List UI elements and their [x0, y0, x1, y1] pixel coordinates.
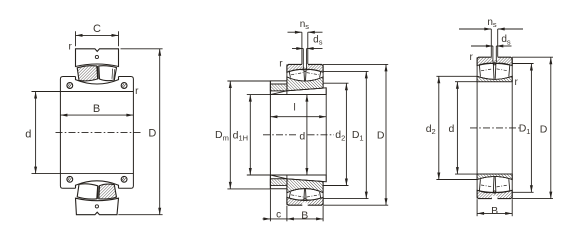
bearing right face line	[322, 64, 324, 88]
bottom left roller	[77, 184, 98, 199]
svg-text:l: l	[293, 103, 295, 114]
dimension B middle	[286, 206, 288, 222]
dimension d_s right-fig	[471, 45, 493, 47]
sleeve thread block bottom	[270, 179, 287, 186]
left figure centerline	[56, 131, 141, 133]
shaft top surface line	[247, 94, 326, 96]
dimension d_1H	[249, 95, 251, 175]
middle figure centerline	[263, 134, 298, 136]
hole circle bottom right-fig	[494, 191, 496, 193]
sleeve lip bottom outline	[270, 175, 287, 189]
dimension d_s top	[292, 48, 303, 50]
groove gap top right-fig	[492, 56, 498, 60]
groove notch bottom	[302, 202, 307, 206]
dimension d middle	[306, 95, 308, 175]
bottom roller separation line	[97, 186, 100, 199]
roller axes top (dash-dot)	[291, 73, 303, 75]
dimension C	[75, 31, 77, 46]
top outer ring section	[76, 49, 119, 67]
body face line top	[32, 91, 134, 93]
sectioned pin circle	[67, 83, 73, 89]
hole exit circle right-fig	[494, 63, 496, 65]
rollers top	[287, 77, 323, 81]
dimension D_1 right-fig	[512, 63, 533, 65]
bottom right roller (sectioned)	[99, 184, 117, 199]
sleeve thread block top	[270, 84, 287, 91]
roller edge lines top right-fig	[479, 65, 480, 77]
dimension D_1 middle	[323, 70, 368, 72]
bearing left face line	[286, 64, 288, 94]
svg-text:D: D	[377, 130, 385, 142]
svg-text:d: d	[299, 131, 305, 143]
lubrication groove gap top	[302, 64, 308, 68]
dimension n_s right-fig	[459, 28, 491, 30]
rollers bottom	[287, 189, 323, 193]
dimension D	[121, 48, 163, 50]
dimension B	[60, 114, 133, 116]
roller bottom arcs	[289, 198, 304, 200]
dimension n_s top	[288, 31, 302, 33]
roller bottom arcs right-fig	[479, 191, 493, 193]
dimension D_m	[227, 80, 270, 82]
groove width lines top	[301, 32, 303, 64]
rollers top right-fig	[477, 76, 512, 79]
sleeve lip top outline	[270, 81, 287, 95]
dimension D right-fig	[512, 56, 553, 58]
lubrication hole circle bottom	[304, 198, 306, 200]
top right roller	[99, 66, 117, 81]
dimension D middle	[323, 63, 388, 65]
roller top arcs	[289, 70, 304, 72]
lubrication hole lines top	[302, 49, 304, 70]
outer ring section top right-fig	[477, 57, 512, 65]
dimension d	[35, 92, 37, 174]
top roller separation line	[97, 66, 100, 79]
top right roller end-face lines	[111, 69, 114, 79]
rollers bottom right-fig	[477, 176, 512, 179]
bearing left face line right-fig	[476, 57, 478, 198]
lubrication hole exit circle top	[304, 69, 306, 71]
dimension d_2 right-fig	[436, 75, 477, 77]
inner ring section bottom right-fig	[477, 174, 512, 179]
hole lines right-fig	[492, 46, 494, 62]
sectioned pin circle	[121, 176, 127, 182]
inner ring section top right-fig	[477, 76, 512, 81]
bottom outer ring section	[76, 198, 119, 215]
roller top arcs right-fig	[479, 63, 493, 65]
svg-text:D: D	[540, 123, 548, 135]
sectioned pin circle	[121, 83, 127, 89]
dimension c	[269, 190, 271, 222]
shaft bottom surface line	[247, 174, 326, 176]
dimension d right-fig	[455, 81, 477, 83]
svg-text:d: d	[25, 128, 31, 140]
right figure centerline	[470, 127, 520, 129]
left figure body (inner ring assembly outside view)	[60, 77, 133, 189]
inner ring section top	[287, 77, 323, 91]
roller axes top right-fig	[481, 69, 493, 71]
roller edge lines top	[289, 72, 290, 78]
svg-text:C: C	[93, 23, 101, 35]
dimension B right-fig	[476, 199, 478, 216]
roller axes bottom right-fig	[481, 185, 493, 187]
svg-text:B: B	[301, 210, 308, 222]
inner ring section bottom	[287, 179, 323, 193]
roller edge lines bottom right-fig	[479, 179, 480, 191]
dimension l	[270, 116, 326, 118]
outer ring section bottom right-fig	[477, 190, 512, 198]
adapter sleeve outline bottom (viewed through slit)	[270, 175, 326, 182]
sectioned pin circle	[67, 176, 73, 182]
groove notch bottom right-fig	[492, 196, 498, 200]
outer ring section top	[287, 64, 323, 72]
roller axes bottom	[291, 195, 303, 197]
lubrication hole bottom	[95, 205, 98, 208]
top left roller (sectioned)	[77, 66, 98, 81]
adapter sleeve outline top (viewed through slit)	[270, 88, 326, 95]
sleeve/shaft end face line right	[325, 88, 327, 182]
outer ring section bottom	[287, 197, 323, 205]
body face line bottom	[32, 173, 134, 175]
svg-text:d: d	[448, 123, 454, 135]
sleeve lip left face line	[269, 81, 271, 189]
bearing right face line right-fig	[511, 57, 513, 198]
roller edge lines bottom	[289, 192, 290, 198]
dimension d_2 middle	[323, 82, 348, 84]
lubrication hole top	[95, 55, 98, 58]
svg-text:B: B	[491, 205, 498, 217]
top pocket raceway curve	[76, 77, 119, 85]
svg-text:B: B	[93, 103, 100, 115]
svg-text:D: D	[148, 128, 156, 140]
bottom pocket raceway curve	[76, 181, 119, 189]
svg-text:c: c	[276, 210, 281, 221]
groove width lines right-fig	[490, 29, 492, 57]
